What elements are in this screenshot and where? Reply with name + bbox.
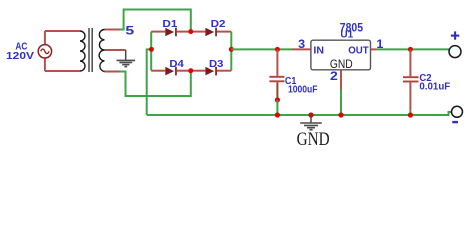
diode D2 xyxy=(191,28,232,37)
secondary bottom pin xyxy=(105,71,120,73)
wire secondary bottom to bridge bottom-middle xyxy=(120,71,191,96)
wire bridge left to bottom rail xyxy=(147,49,152,115)
svg-text:OUT: OUT xyxy=(348,45,369,57)
regulator U1 box xyxy=(311,40,371,70)
junction bridge right xyxy=(229,47,234,52)
svg-text:D2: D2 xyxy=(211,18,226,30)
svg-text:U1: U1 xyxy=(340,28,353,40)
junction C1 lead xyxy=(275,97,280,102)
diode D1 xyxy=(151,28,191,37)
svg-text:1000uF: 1000uF xyxy=(288,83,318,95)
wire primary top xyxy=(45,30,80,32)
svg-text:D1: D1 xyxy=(162,18,177,30)
diode D4 xyxy=(151,67,191,76)
terminal - circle xyxy=(452,106,463,117)
plus sign xyxy=(451,31,459,39)
capacitor C2 xyxy=(403,49,419,110)
junction node 1 at C2 xyxy=(408,47,413,52)
junction rail C2 xyxy=(408,112,413,117)
wire C2 to rail xyxy=(409,110,411,115)
wire bridge right side xyxy=(230,32,232,71)
wire GND pin to rail xyxy=(340,89,342,115)
terminal + xyxy=(449,46,461,58)
transformer core xyxy=(88,28,90,72)
secondary center tap pin xyxy=(105,49,126,51)
wire C1 to rail xyxy=(276,100,278,115)
junction bridge top-middle xyxy=(188,29,193,34)
wire OUT to + terminal xyxy=(377,48,450,50)
svg-text:0.01uF: 0.01uF xyxy=(419,81,450,93)
AC source V1 xyxy=(38,31,51,71)
junction node 3 at C1 xyxy=(275,47,280,52)
junction rail C1 xyxy=(275,112,280,117)
capacitor C1 xyxy=(269,49,284,100)
svg-text:2: 2 xyxy=(330,69,338,83)
svg-text:5: 5 xyxy=(125,24,134,38)
junction rail U1 GND xyxy=(338,112,343,117)
diode D3 xyxy=(191,67,232,76)
wire bridge right to regulator IN xyxy=(231,48,292,50)
pin wire IN xyxy=(292,48,311,50)
bottom rail xyxy=(147,112,452,115)
junction bridge bottom-middle xyxy=(188,68,193,73)
secondary top pin xyxy=(105,29,120,31)
transformer T1 primary coil xyxy=(80,31,85,71)
svg-text:120V: 120V xyxy=(6,50,34,62)
wire bridge left side xyxy=(150,32,152,71)
minus sign xyxy=(452,121,458,123)
junction bridge left xyxy=(149,47,154,52)
svg-text:GND: GND xyxy=(297,130,330,150)
pin wire GND (regulator) xyxy=(340,70,342,89)
junction rail GND xyxy=(308,112,313,117)
pin wire OUT xyxy=(371,48,377,50)
svg-text:D4: D4 xyxy=(169,58,184,70)
svg-text:D3: D3 xyxy=(209,58,224,70)
ground at center tap xyxy=(117,50,136,67)
wire net 5 (secondary top to bridge top-middle) xyxy=(120,10,191,32)
svg-text:IN: IN xyxy=(313,45,324,57)
transformer T1 secondary coil xyxy=(99,30,104,72)
svg-text:3: 3 xyxy=(298,37,305,51)
wire primary bottom xyxy=(45,70,80,72)
ground symbol GND xyxy=(300,115,322,130)
